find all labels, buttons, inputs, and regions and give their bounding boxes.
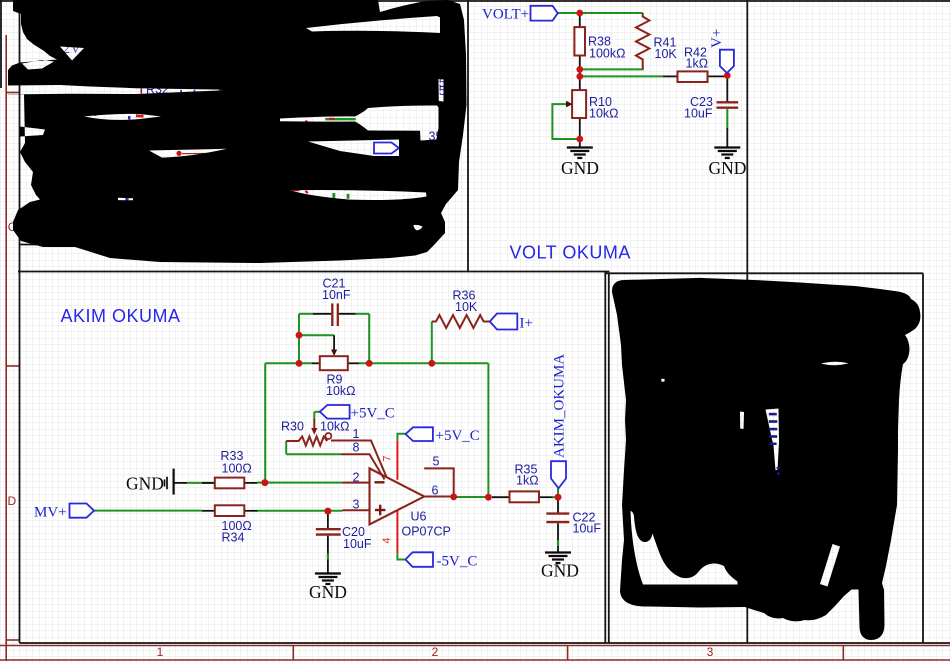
svg-text:AKIM OKUMA: AKIM OKUMA bbox=[61, 306, 181, 326]
svg-text:10uF: 10uF bbox=[343, 537, 372, 551]
svg-text:1kΩ: 1kΩ bbox=[686, 57, 709, 71]
svg-text:GND: GND bbox=[561, 158, 599, 178]
svg-text:+5V_C: +5V_C bbox=[436, 428, 480, 444]
svg-text:10kΩ: 10kΩ bbox=[326, 384, 356, 398]
svg-text:R34: R34 bbox=[222, 531, 245, 545]
svg-text:I+: I+ bbox=[520, 316, 533, 332]
svg-text:100kΩ: 100kΩ bbox=[589, 47, 625, 61]
svg-text:5: 5 bbox=[433, 455, 440, 469]
svg-text:GND: GND bbox=[126, 474, 164, 494]
svg-text:GND: GND bbox=[709, 158, 747, 178]
svg-text:8: 8 bbox=[353, 441, 360, 455]
svg-text:MV+: MV+ bbox=[34, 505, 67, 521]
svg-text:-5V_C: -5V_C bbox=[437, 554, 478, 570]
svg-text:10K: 10K bbox=[455, 300, 478, 314]
svg-text:VOLT OKUMA: VOLT OKUMA bbox=[510, 243, 631, 263]
svg-text:U6: U6 bbox=[411, 510, 427, 524]
svg-text:7: 7 bbox=[382, 455, 394, 461]
svg-text:10uF: 10uF bbox=[684, 107, 713, 121]
svg-text:100Ω: 100Ω bbox=[222, 462, 252, 476]
svg-text:3: 3 bbox=[353, 498, 360, 512]
svg-text:1: 1 bbox=[353, 427, 360, 441]
svg-text:1: 1 bbox=[157, 645, 164, 659]
svg-text:R30: R30 bbox=[281, 420, 304, 434]
svg-text:2: 2 bbox=[353, 471, 360, 485]
svg-text:10uF: 10uF bbox=[573, 522, 602, 536]
svg-text:GND: GND bbox=[541, 561, 579, 581]
svg-text:AKIM_OKUMA: AKIM_OKUMA bbox=[552, 354, 568, 458]
svg-text:4: 4 bbox=[381, 537, 393, 543]
svg-text:D: D bbox=[8, 494, 17, 508]
svg-text:6: 6 bbox=[432, 484, 439, 498]
svg-text:V+: V+ bbox=[709, 29, 725, 48]
svg-text:2: 2 bbox=[432, 645, 439, 659]
svg-text:1kΩ: 1kΩ bbox=[516, 474, 539, 488]
svg-text:10kΩ: 10kΩ bbox=[589, 107, 619, 121]
svg-text:OP07CP: OP07CP bbox=[402, 525, 451, 539]
svg-text:VOLT+: VOLT+ bbox=[482, 7, 529, 23]
svg-text:+5V_C: +5V_C bbox=[351, 406, 395, 422]
svg-text:GND: GND bbox=[309, 582, 347, 602]
svg-text:3: 3 bbox=[707, 645, 714, 659]
svg-text:10nF: 10nF bbox=[322, 288, 351, 302]
svg-text:10kΩ: 10kΩ bbox=[320, 420, 350, 434]
svg-text:10K: 10K bbox=[655, 47, 678, 61]
